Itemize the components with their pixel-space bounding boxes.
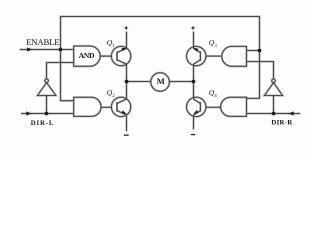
arrowhead: Q3 emitter arrow	[194, 48, 199, 52]
svg-text:Q1: Q1	[107, 38, 115, 49]
node: right ENABLE junction dot	[258, 49, 262, 53]
soft halo pass	[20, 17, 301, 132]
arrowhead: DIR-R input arrow	[288, 111, 294, 115]
arrowhead: ENABLE input arrow	[27, 47, 32, 51]
arrowhead: Q1 emitter arrow	[121, 48, 126, 51]
svg-text:DIR-L: DIR-L	[31, 120, 55, 127]
svg-text:AND: AND	[79, 51, 95, 60]
svg-text:DIR-R: DIR-R	[271, 120, 292, 127]
svg-text:M: M	[157, 76, 165, 86]
+ supply star above Q1	[124, 26, 129, 30]
node: ENABLE junction dot	[59, 48, 63, 52]
node: motor right node dot	[192, 80, 196, 84]
svg-text:Q4: Q4	[209, 88, 217, 99]
arrowhead: Q2 emitter arrow	[121, 110, 126, 113]
node: motor left node dot	[125, 80, 129, 84]
svg-text:ENABLE: ENABLE	[26, 37, 59, 47]
node: DIR-R junction dot	[272, 112, 276, 116]
svg-text:Q3: Q3	[209, 38, 217, 49]
- supply dash below Q4	[191, 134, 195, 135]
node: DIR-L junction dot	[45, 112, 49, 116]
+ supply star above Q3	[191, 26, 196, 30]
- supply dash below Q2	[124, 135, 129, 136]
svg-text:Q2: Q2	[107, 88, 115, 99]
arrowhead: Q4 emitter arrow	[194, 110, 199, 114]
arrowhead: DIR-L input arrow	[26, 111, 31, 115]
